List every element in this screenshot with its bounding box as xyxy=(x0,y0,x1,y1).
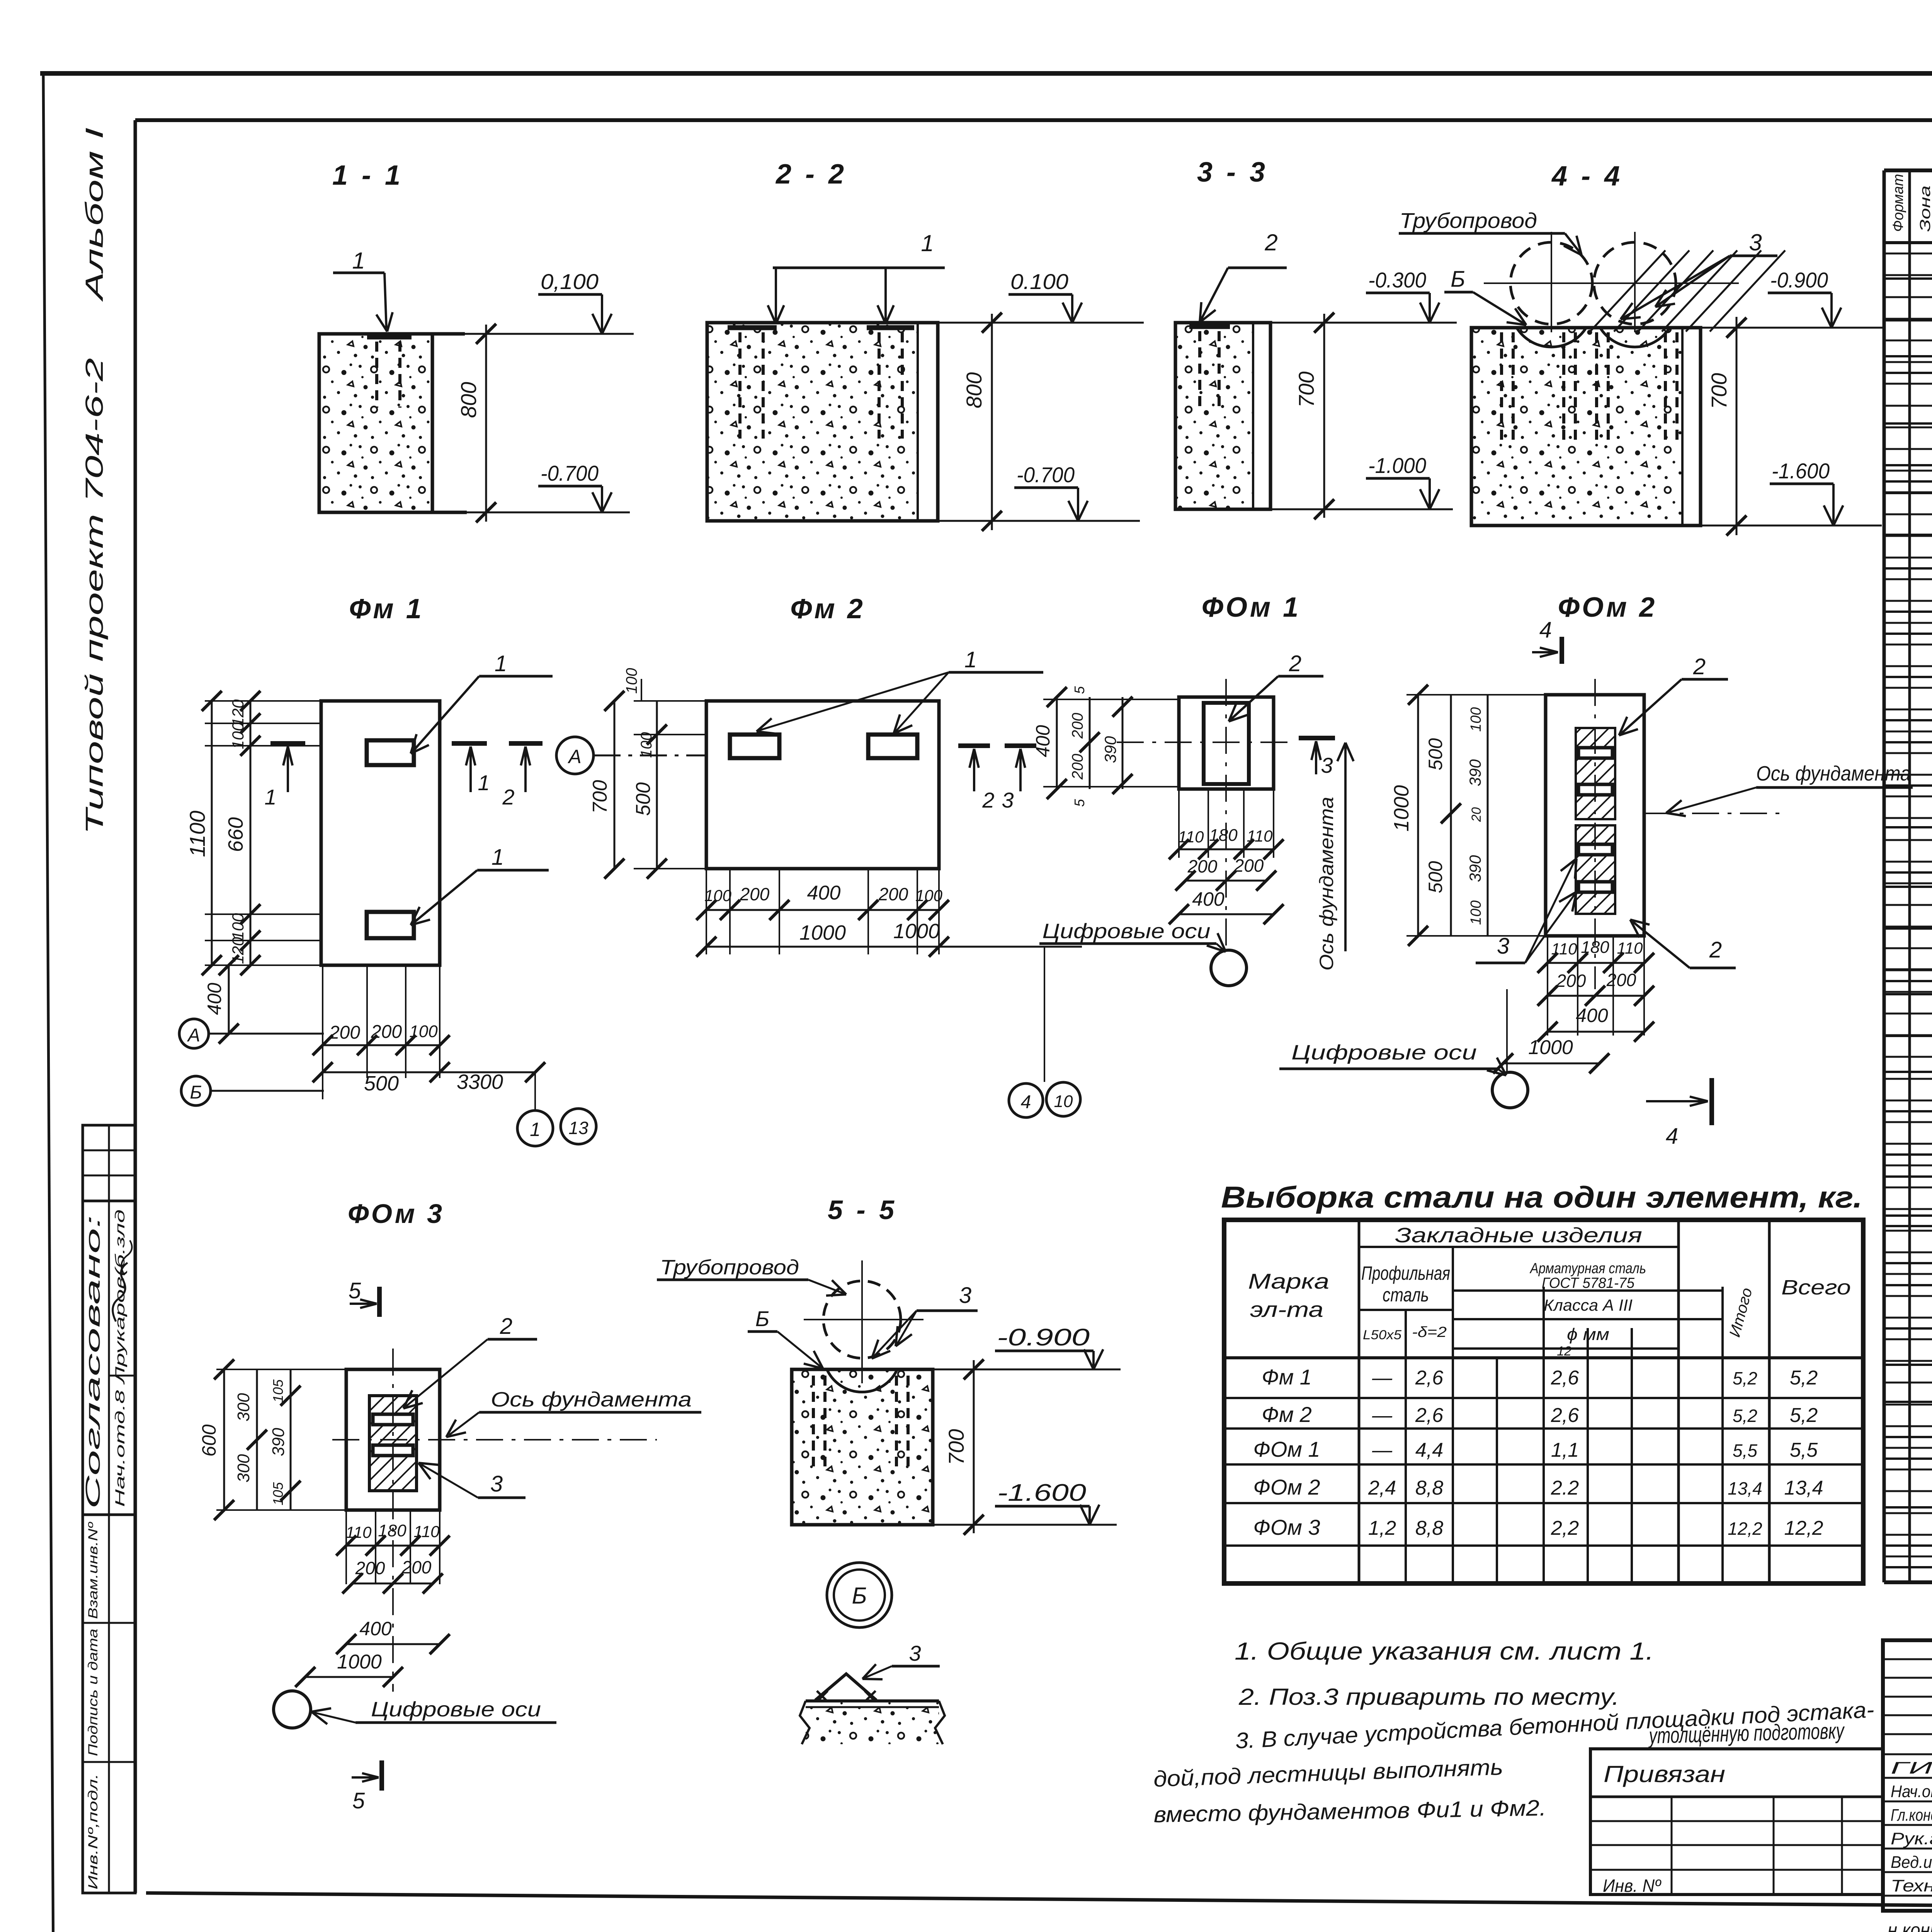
svg-text:2: 2 xyxy=(500,1314,512,1339)
svg-text:ФОм 3: ФОм 3 xyxy=(1253,1515,1320,1539)
svg-text:2: 2 xyxy=(1289,651,1301,676)
svg-text:1,1: 1,1 xyxy=(1551,1439,1579,1461)
svg-text:Гл.констр: Гл.констр xyxy=(1891,1806,1932,1825)
svg-text:1100: 1100 xyxy=(185,811,209,857)
svg-text:5: 5 xyxy=(349,1278,361,1303)
svg-text:800: 800 xyxy=(962,372,986,408)
svg-text:2. Поз.3 приварить по месту.: 2. Поз.3 приварить по месту. xyxy=(1238,1684,1619,1710)
svg-text:400: 400 xyxy=(359,1618,392,1639)
svg-text:5: 5 xyxy=(1071,799,1087,807)
svg-text:390: 390 xyxy=(1466,855,1484,882)
svg-text:Ось фундамента: Ось фундамента xyxy=(491,1388,692,1411)
svg-text:утолщённую подготовку: утолщённую подготовку xyxy=(1648,1718,1845,1748)
svg-text:400: 400 xyxy=(1576,1005,1608,1026)
svg-text:500: 500 xyxy=(632,782,655,816)
svg-text:4: 4 xyxy=(1539,617,1552,643)
svg-text:13,4: 13,4 xyxy=(1728,1478,1762,1498)
svg-text:2.2: 2.2 xyxy=(1551,1477,1579,1499)
svg-text:390: 390 xyxy=(269,1428,288,1456)
svg-text:1,2: 1,2 xyxy=(1368,1517,1396,1539)
svg-text:Ось фундамента: Ось фундамента xyxy=(1756,762,1911,785)
svg-text:500: 500 xyxy=(1425,738,1446,770)
svg-text:1: 1 xyxy=(492,845,504,870)
svg-text:Трубопровод: Трубопровод xyxy=(1400,208,1537,233)
svg-text:ФОм 1: ФОм 1 xyxy=(1253,1437,1320,1461)
svg-text:12: 12 xyxy=(1557,1344,1571,1359)
svg-text:100: 100 xyxy=(1468,707,1484,731)
svg-text:ɸ мм: ɸ мм xyxy=(1567,1325,1609,1344)
svg-text:Техник: Техник xyxy=(1891,1876,1932,1895)
svg-text:100: 100 xyxy=(229,913,247,940)
svg-text:100: 100 xyxy=(623,668,640,694)
svg-text:5: 5 xyxy=(352,1788,365,1813)
svg-text:Типовой проект 704-6-2 А: Типовой проект 704-6-2 Альбом I xyxy=(80,128,108,835)
svg-text:110: 110 xyxy=(1551,940,1578,958)
svg-text:200: 200 xyxy=(1606,970,1636,990)
svg-text:Марка: Марка xyxy=(1248,1269,1329,1293)
svg-text:100: 100 xyxy=(704,886,732,905)
svg-text:-0.700: -0.700 xyxy=(541,461,599,485)
svg-text:3 - 3: 3 - 3 xyxy=(1197,157,1268,188)
svg-text:Закладные изделия: Закладные изделия xyxy=(1395,1224,1642,1247)
svg-text:13,4: 13,4 xyxy=(1784,1477,1823,1499)
svg-text:3: 3 xyxy=(909,1641,921,1665)
svg-text:Привязан: Привязан xyxy=(1604,1761,1725,1787)
svg-text:5,2: 5,2 xyxy=(1733,1368,1757,1388)
svg-text:110: 110 xyxy=(1247,827,1273,845)
svg-text:100: 100 xyxy=(1468,900,1484,925)
svg-text:1000: 1000 xyxy=(337,1651,382,1673)
svg-text:Б: Б xyxy=(852,1583,867,1609)
svg-text:8,8: 8,8 xyxy=(1415,1517,1443,1539)
svg-text:Б: Б xyxy=(1451,267,1465,292)
svg-text:1 - 1: 1 - 1 xyxy=(332,160,403,191)
svg-text:700: 700 xyxy=(589,780,611,814)
svg-text:Взам.инв.Nº: Взам.инв.Nº xyxy=(86,1522,100,1619)
svg-text:100: 100 xyxy=(229,722,247,749)
svg-text:Согласовано:: Согласовано: xyxy=(82,1215,104,1509)
svg-text:0.100: 0.100 xyxy=(1010,269,1068,294)
svg-text:12,2: 12,2 xyxy=(1784,1517,1823,1539)
svg-text:800: 800 xyxy=(456,382,481,418)
svg-text:—: — xyxy=(1372,1404,1393,1427)
svg-text:200: 200 xyxy=(401,1557,432,1577)
svg-text:200: 200 xyxy=(740,884,770,904)
svg-text:Арматурная сталь: Арматурная сталь xyxy=(1529,1260,1646,1277)
svg-text:2,2: 2,2 xyxy=(1551,1517,1579,1539)
svg-text:Нач.отд.8 Лрукаров(б.злд: Нач.отд.8 Лрукаров(б.злд xyxy=(113,1209,128,1507)
svg-text:2: 2 xyxy=(1709,937,1722,963)
svg-text:-0.900: -0.900 xyxy=(997,1324,1090,1351)
svg-text:400: 400 xyxy=(1032,725,1054,757)
svg-text:-δ=2: -δ=2 xyxy=(1412,1324,1447,1340)
svg-text:—: — xyxy=(1372,1439,1393,1461)
svg-text:500: 500 xyxy=(364,1072,399,1095)
svg-text:L50x5: L50x5 xyxy=(1363,1328,1401,1342)
svg-text:105: 105 xyxy=(270,1482,286,1505)
svg-text:Подпись и дата: Подпись и дата xyxy=(86,1629,100,1756)
svg-text:2,4: 2,4 xyxy=(1368,1477,1396,1499)
svg-text:-0.300: -0.300 xyxy=(1368,268,1426,292)
svg-text:4 - 4: 4 - 4 xyxy=(1551,161,1623,192)
svg-text:100: 100 xyxy=(638,732,655,758)
svg-text:200: 200 xyxy=(1187,856,1218,876)
svg-text:н.контр.: н.контр. xyxy=(1888,1919,1932,1932)
svg-text:1: 1 xyxy=(495,651,507,676)
svg-text:А: А xyxy=(567,746,581,767)
svg-text:4,4: 4,4 xyxy=(1415,1439,1443,1461)
svg-text:1000: 1000 xyxy=(893,920,940,943)
svg-text:Инв. Nº: Инв. Nº xyxy=(1603,1876,1662,1896)
svg-text:Зона: Зона xyxy=(1917,185,1932,232)
svg-text:200: 200 xyxy=(878,884,908,904)
svg-text:Б: Б xyxy=(190,1082,202,1103)
svg-text:3: 3 xyxy=(1497,934,1509,959)
svg-text:110: 110 xyxy=(1617,939,1643,957)
svg-text:Цифровые оси: Цифровые оси xyxy=(371,1698,541,1721)
svg-text:5,2: 5,2 xyxy=(1790,1367,1818,1389)
svg-text:400: 400 xyxy=(1192,888,1225,910)
svg-text:Профильная: Профильная xyxy=(1361,1262,1450,1284)
svg-text:3: 3 xyxy=(1749,230,1762,255)
svg-text:5,2: 5,2 xyxy=(1790,1404,1818,1427)
svg-text:2,6: 2,6 xyxy=(1551,1404,1579,1427)
svg-text:390: 390 xyxy=(1466,759,1484,786)
svg-text:ФОм 2: ФОм 2 xyxy=(1253,1475,1320,1499)
svg-text:180: 180 xyxy=(1581,938,1609,957)
svg-text:1: 1 xyxy=(478,770,490,795)
svg-text:700: 700 xyxy=(1294,371,1318,407)
svg-text:3: 3 xyxy=(1321,753,1333,777)
svg-text:2: 2 xyxy=(1693,654,1706,679)
svg-text:2: 2 xyxy=(1264,230,1277,255)
svg-text:Фм 1: Фм 1 xyxy=(1262,1365,1312,1389)
svg-text:ФОм 3: ФОм 3 xyxy=(348,1199,444,1229)
svg-text:-1.600: -1.600 xyxy=(1772,459,1830,483)
svg-text:—: — xyxy=(1372,1367,1393,1389)
svg-text:200: 200 xyxy=(355,1558,385,1578)
svg-text:390: 390 xyxy=(1101,736,1119,763)
svg-text:200: 200 xyxy=(1556,971,1586,991)
svg-text:200: 200 xyxy=(1069,713,1086,739)
svg-text:660: 660 xyxy=(224,817,247,852)
svg-text:4: 4 xyxy=(1021,1092,1031,1112)
svg-text:0,100: 0,100 xyxy=(541,269,599,294)
svg-text:20: 20 xyxy=(1469,807,1484,822)
svg-text:1: 1 xyxy=(352,248,365,274)
svg-text:ФОм 1: ФОм 1 xyxy=(1202,592,1301,623)
svg-text:5: 5 xyxy=(1071,686,1087,694)
svg-text:400: 400 xyxy=(807,882,841,904)
svg-text:2,6: 2,6 xyxy=(1551,1367,1579,1389)
svg-text:5 - 5: 5 - 5 xyxy=(828,1195,897,1225)
svg-text:110: 110 xyxy=(414,1522,440,1541)
svg-text:Вед.инж.: Вед.инж. xyxy=(1891,1853,1932,1872)
svg-text:-0.900: -0.900 xyxy=(1770,268,1828,292)
svg-text:200: 200 xyxy=(329,1022,360,1043)
svg-text:2: 2 xyxy=(502,785,514,809)
svg-text:Всего: Всего xyxy=(1781,1276,1851,1299)
svg-text:100: 100 xyxy=(915,886,943,905)
svg-text:Фм 2: Фм 2 xyxy=(1262,1402,1312,1427)
svg-text:1000: 1000 xyxy=(1528,1036,1573,1059)
svg-text:Фм 2: Фм 2 xyxy=(790,594,865,624)
svg-text:Ось фундамента: Ось фундамента xyxy=(1316,797,1337,971)
svg-text:300: 300 xyxy=(234,1454,253,1483)
svg-text:4: 4 xyxy=(1666,1124,1678,1149)
svg-text:180: 180 xyxy=(1209,826,1238,845)
svg-text:2 - 2: 2 - 2 xyxy=(775,159,847,190)
svg-text:2,6: 2,6 xyxy=(1415,1404,1443,1427)
svg-text:1000: 1000 xyxy=(799,921,846,944)
svg-text:1: 1 xyxy=(921,230,934,256)
svg-text:Фм 1: Фм 1 xyxy=(349,594,424,624)
svg-text:5,2: 5,2 xyxy=(1733,1406,1757,1426)
svg-text:Формат: Формат xyxy=(1890,174,1906,232)
svg-text:ФОм 2: ФОм 2 xyxy=(1558,592,1657,623)
svg-text:180: 180 xyxy=(378,1521,406,1540)
svg-text:700: 700 xyxy=(944,1429,968,1465)
svg-text:Инв.Nº,подл.: Инв.Nº,подл. xyxy=(86,1774,100,1889)
svg-text:Цифровые оси: Цифровые оси xyxy=(1291,1041,1477,1064)
svg-text:8,8: 8,8 xyxy=(1415,1477,1443,1499)
svg-text:110: 110 xyxy=(346,1523,372,1541)
svg-text:Рук.гр.: Рук.гр. xyxy=(1891,1829,1932,1848)
svg-text:ГИП: ГИП xyxy=(1891,1759,1932,1777)
svg-text:Трубопровод: Трубопровод xyxy=(660,1256,799,1279)
svg-text:110: 110 xyxy=(1178,828,1204,846)
svg-text:100: 100 xyxy=(409,1022,438,1041)
svg-text:600: 600 xyxy=(198,1424,220,1457)
svg-text:5,5: 5,5 xyxy=(1733,1440,1757,1461)
svg-text:200: 200 xyxy=(371,1022,402,1042)
svg-text:Выборка стали на один элеме: Выборка стали на один элемент, кг. xyxy=(1221,1180,1862,1214)
svg-text:Нач.отд.: Нач.отд. xyxy=(1891,1782,1932,1801)
svg-text:1. Общие указания см. лист 1: 1. Общие указания см. лист 1. xyxy=(1235,1637,1654,1665)
svg-text:-1.000: -1.000 xyxy=(1368,453,1426,478)
svg-text:1000: 1000 xyxy=(1390,785,1413,832)
svg-text:3: 3 xyxy=(1002,788,1014,812)
svg-text:1: 1 xyxy=(964,647,977,672)
svg-text:-0.700: -0.700 xyxy=(1017,463,1075,487)
svg-text:200: 200 xyxy=(1069,754,1086,780)
svg-text:ГОСТ 5781-75: ГОСТ 5781-75 xyxy=(1542,1275,1635,1291)
svg-text:10: 10 xyxy=(1054,1092,1073,1111)
svg-text:3300: 3300 xyxy=(457,1070,503,1094)
svg-text:13: 13 xyxy=(568,1118,588,1138)
svg-text:5,5: 5,5 xyxy=(1790,1439,1818,1461)
svg-text:1: 1 xyxy=(530,1119,541,1140)
svg-text:сталь: сталь xyxy=(1383,1284,1429,1306)
svg-text:1: 1 xyxy=(264,785,276,809)
svg-text:-1.600: -1.600 xyxy=(997,1480,1086,1506)
svg-text:Б: Б xyxy=(755,1306,769,1331)
svg-text:А: А xyxy=(187,1025,200,1046)
svg-text:3: 3 xyxy=(959,1283,971,1308)
svg-text:12,2: 12,2 xyxy=(1728,1519,1762,1539)
svg-text:300: 300 xyxy=(234,1393,253,1422)
svg-text:эл-та: эл-та xyxy=(1250,1297,1323,1321)
svg-text:105: 105 xyxy=(270,1379,286,1403)
svg-text:400: 400 xyxy=(204,983,225,1015)
svg-text:3: 3 xyxy=(490,1471,503,1497)
svg-text:700: 700 xyxy=(1707,373,1731,409)
svg-text:Цифровые оси: Цифровые оси xyxy=(1043,920,1211,943)
svg-text:200: 200 xyxy=(1234,855,1264,876)
svg-text:Класса А III: Класса А III xyxy=(1544,1296,1633,1314)
svg-text:2: 2 xyxy=(982,788,994,812)
svg-text:120: 120 xyxy=(229,937,247,964)
svg-text:500: 500 xyxy=(1425,861,1446,893)
svg-text:2,6: 2,6 xyxy=(1415,1367,1443,1389)
